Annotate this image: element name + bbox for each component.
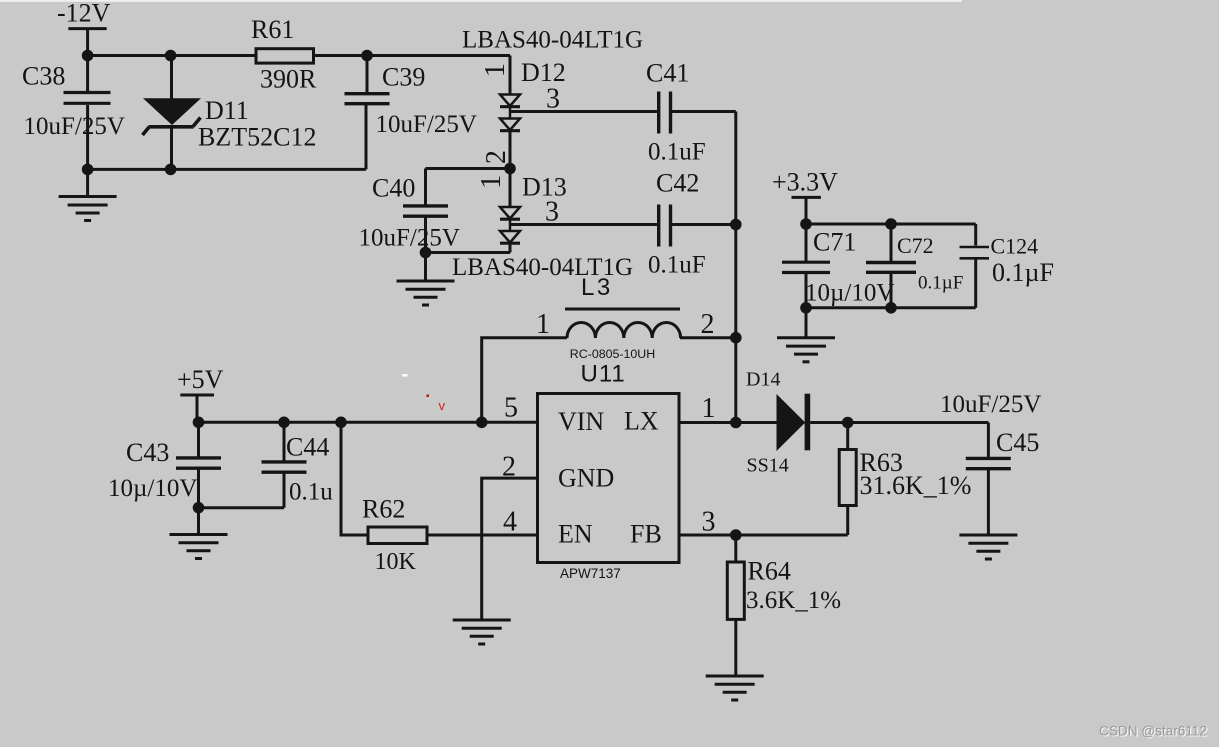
svg-text:RC-0805-10UH: RC-0805-10UH [570,347,655,361]
wire L3 pin2 to right bus [680,336,736,339]
svg-text:R61: R61 [251,15,294,44]
capacitor C40 [403,169,448,253]
svg-text:BZT52C12: BZT52C12 [198,123,316,152]
power symbol -12V [68,29,106,56]
inductor L3 [565,309,681,338]
svg-text:0.1u: 0.1u [289,479,333,506]
svg-text:+5V: +5V [177,365,224,394]
svg-text:-12V: -12V [57,0,111,28]
wire C41 to right bus [672,110,736,113]
svg-text:5: 5 [504,393,518,424]
wire D13 bottom to C40 bottom [426,251,511,254]
svg-text:R64: R64 [748,557,791,586]
svg-text:1: 1 [702,393,716,424]
wire D14 cathode to C45 [810,421,988,424]
svg-text:0.1uF: 0.1uF [648,252,706,279]
svg-text:3: 3 [702,507,716,538]
junction L3 pin2 bus [730,332,742,344]
svg-text:10uF/25V: 10uF/25V [359,225,460,252]
junction +3.3V rail at C71 [800,218,812,230]
svg-text:10uF/25V: 10uF/25V [24,113,125,140]
junction bottom rail at C38 [82,164,94,176]
power symbol +5V [180,395,214,422]
dual diode D13 [500,169,520,253]
svg-text:10µ/10V: 10µ/10V [108,475,197,502]
wire bottom rail (C38 D11 C39) [88,168,366,171]
svg-text:+3.3V: +3.3V [772,168,838,197]
svg-text:1: 1 [476,175,507,189]
junction bottom rail at D11 [165,164,177,176]
wire +3.3V top rail [806,223,976,226]
svg-text:C43: C43 [126,438,169,467]
scan artifact red dot [427,395,430,398]
svg-text:R62: R62 [362,495,405,524]
svg-text:1: 1 [536,309,550,340]
svg-text:C40: C40 [372,174,415,203]
svg-text:3.6K_1%: 3.6K_1% [746,587,841,614]
junction VIN rail at C44 [278,417,290,429]
wire D13 pin3 to C42 [510,223,657,226]
capacitor C43 [176,422,221,507]
wire C42 to right bus [672,223,736,226]
junction C40 bottom [420,247,432,259]
op-amp U11 body [538,394,680,563]
junction +3.3V bottom rail at C71 [800,302,812,314]
svg-text:31.6K_1%: 31.6K_1% [860,471,972,500]
svg-text:LX: LX [624,407,659,436]
svg-text:FB: FB [630,520,662,549]
svg-text:C44: C44 [286,433,329,462]
svg-text:10K: 10K [375,549,417,575]
capacitor C124 [960,224,990,308]
svg-text:10µ/10V: 10µ/10V [805,280,894,307]
wire R62 to EN pin [427,534,538,537]
junction D14/R63 node [842,417,854,429]
wire C43 bottom to C44 bottom [199,506,285,509]
scan artifact white dash [402,374,408,377]
dual diode D12 [500,95,520,169]
ground (C38 bottom) [59,169,117,220]
svg-text:0.1µF: 0.1µF [918,273,963,294]
wire FB pin3 to R63 bottom [679,534,848,537]
svg-text:C45: C45 [996,428,1039,457]
junction LX node bus [730,417,742,429]
svg-text:EN: EN [558,520,593,549]
junction VIN rail at R62 branch [335,417,347,429]
svg-text:0.1uF: 0.1uF [648,139,706,166]
ground (U11 pin2) [453,620,511,644]
capacitor C39 [345,56,390,170]
capacitor C42 [659,205,671,247]
svg-text:390R: 390R [260,65,317,94]
wire right bus vertical [734,112,737,423]
resistor R63 [839,423,856,536]
svg-text:3: 3 [546,84,560,115]
junction D12 pin2 node [504,163,516,175]
wire D12 pin3 to C41 [510,110,657,113]
svg-text:C72: C72 [897,233,934,258]
wire +3.3V bottom rail [806,306,976,309]
ground (R64 bottom) [706,676,764,700]
svg-text:D14: D14 [746,369,780,391]
diode D14 [777,394,811,451]
wire LX pin1 to D14 [679,421,777,424]
svg-text:C42: C42 [656,169,699,198]
svg-text:APW7137: APW7137 [560,566,621,581]
junction FB/R64 node [730,529,742,541]
ground (C40 bottom) [397,253,455,306]
resistor R62 [368,527,427,544]
junction top rail at D11 [165,50,177,62]
wire C40 top to D12 pin2 node [426,167,511,170]
ground (+3.3V group) [777,308,835,362]
junction C43 bottom [193,502,205,514]
svg-text:C71: C71 [813,228,856,257]
junction C42 right bus [730,219,742,231]
svg-text:10uF/25V: 10uF/25V [376,111,477,138]
resistor R61 [256,49,314,63]
svg-text:CSDN @star6112: CSDN @star6112 [1099,724,1207,739]
svg-text:2: 2 [701,309,715,340]
svg-text:v: v [439,398,446,413]
watermark CSDN @star6112 [1099,724,1208,740]
svg-text:GND: GND [558,464,614,493]
wire L3 pin1 down to VIN rail [482,338,567,423]
svg-text:C124: C124 [991,234,1039,259]
capacitor C41 [659,92,671,134]
svg-text:10uF/25V: 10uF/25V [940,391,1041,418]
ground (C45 bottom) [959,535,1017,559]
capacitor C45 [966,423,1011,535]
junction +3.3V bottom rail at C72 [885,302,897,314]
junction VIN rail at L3 branch [476,417,488,429]
svg-text:2: 2 [481,150,512,164]
wire top rail -12V net [88,54,510,57]
svg-text:VIN: VIN [558,407,604,436]
svg-text:U11: U11 [581,361,626,388]
wire top rail corner down to D12 pin1 [509,56,512,95]
svg-text:C39: C39 [382,63,425,92]
svg-text:4: 4 [503,507,517,538]
power symbol +3.3V [792,197,821,224]
resistor R64 [727,535,744,676]
svg-text:SS14: SS14 [747,455,789,477]
junction top rail at C39 [361,50,373,62]
capacitor C71 [782,224,830,309]
junction top rail at C38 [82,50,94,62]
svg-text:L3: L3 [581,274,613,301]
junction VIN rail at C43 [193,417,205,429]
svg-text:C41: C41 [646,59,689,88]
ground (C43 bottom) [170,508,228,559]
zener diode D11 [143,56,202,170]
svg-text:1: 1 [480,63,511,77]
wire U11 GND pin2 to ground [482,478,538,619]
svg-text:C38: C38 [22,62,65,91]
capacitor C44 [262,422,307,507]
wire R62 branch down [341,422,368,535]
svg-text:3: 3 [545,197,559,228]
svg-text:LBAS40-04LT1G: LBAS40-04LT1G [462,27,643,54]
wire VIN rail [197,421,538,424]
capacitor C72 [866,224,916,309]
svg-text:D11: D11 [205,96,249,125]
junction +3.3V rail at C72 [885,218,897,230]
scan artifact white line top [0,0,962,2]
svg-text:0.1µF: 0.1µF [992,258,1054,287]
capacitor C38 [64,56,111,170]
